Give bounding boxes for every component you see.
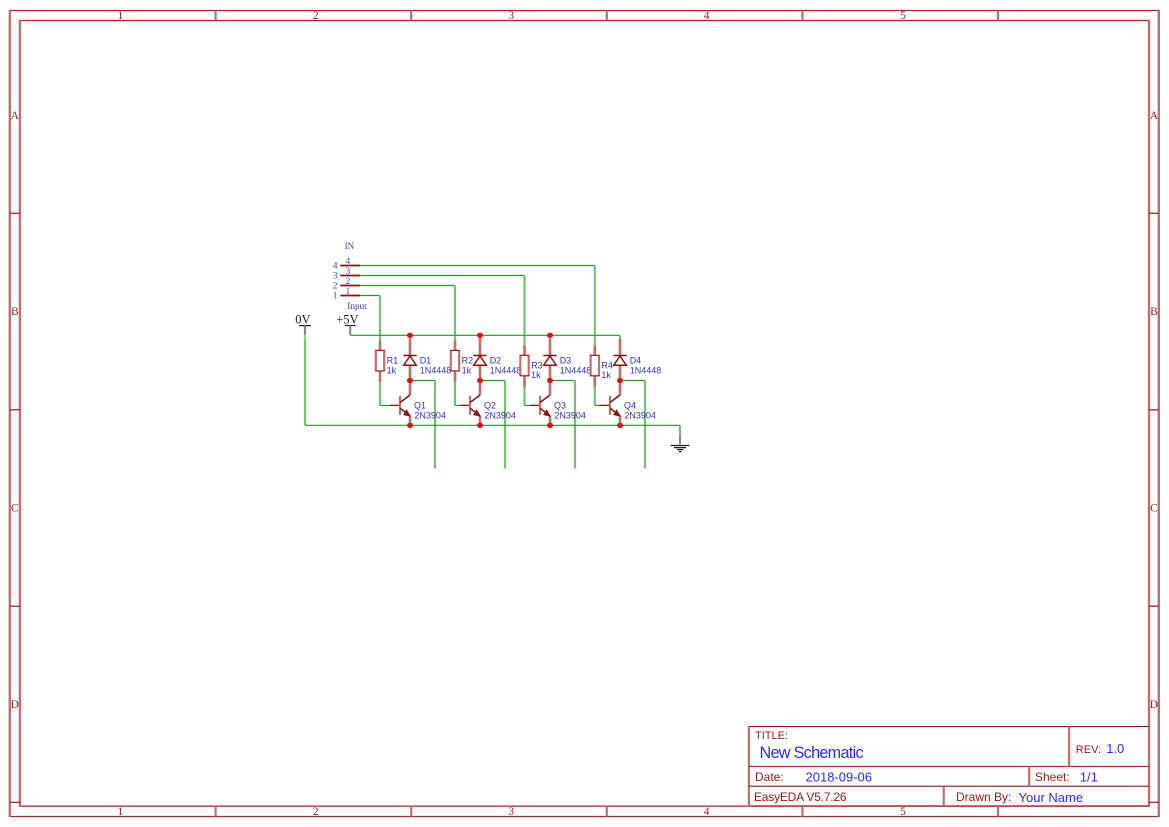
transistor Q3 [530,383,550,422]
wire stub D2 anode [479,381,481,384]
frame column tick bottom x=411.2 [410,806,412,816]
svg-text:EasyEDA V5.7.26: EasyEDA V5.7.26 [754,790,847,804]
frame row tick left y=606.2 [10,605,20,607]
wire 0V rail to ground [679,425,681,435]
svg-text:D1: D1 [420,356,432,366]
wire 0V rail [305,424,680,426]
junction dot D3 anode / Q3 collector [547,378,553,383]
frame column tick top x=998.0 [997,11,999,21]
title block row line 1 [749,765,1149,767]
wire D2 anode junction to output drop [480,381,505,469]
svg-text:1k: 1k [462,365,472,375]
svg-text:1: 1 [118,10,124,22]
frame column tick bottom x=215.6 [215,806,217,816]
svg-text:D4: D4 [630,356,642,366]
wire D4 anode junction to output drop [620,381,645,469]
wire IN pin 2 to R2 top [360,286,455,342]
junction dot D2 anode / Q2 collector [477,378,483,383]
svg-text:Q1: Q1 [414,401,426,411]
svg-text:3: 3 [346,267,351,277]
svg-text:4: 4 [704,10,710,22]
svg-text:A: A [11,110,20,122]
svg-text:1k: 1k [531,370,541,380]
wire IN pin 3 to R3 top [360,276,525,347]
junction dot Q4 emitter / 0V rail [617,423,623,428]
diode D4 [613,339,626,381]
resistor R1 [375,341,385,382]
svg-text:D: D [1150,699,1158,711]
svg-text:B: B [11,306,19,318]
junction dot Q2 emitter / 0V rail [477,423,483,428]
title block divider Drawn By [943,786,945,806]
title block outline [749,726,1149,806]
frame column tick bottom x=998.0 [997,806,999,816]
transistor Q1 [390,383,410,422]
svg-text:1N4448: 1N4448 [490,365,522,375]
junction dot D1 anode / Q1 collector [407,378,413,383]
wire IN pin 4 to R4 top [360,266,595,347]
wire stub D4 anode [619,381,621,384]
svg-text:TITLE:: TITLE: [755,730,788,742]
svg-text:C: C [11,503,19,515]
svg-text:A: A [1150,110,1159,122]
svg-text:REV:: REV: [1076,744,1101,756]
junction dot Q3 emitter / 0V rail [547,423,553,428]
diode D3 [543,339,556,381]
svg-text:1/1: 1/1 [1080,770,1098,785]
frame row tick left y=409.8 [10,409,20,411]
junction dot +5V rail / D2 [477,333,483,338]
frame column tick top x=606.8 [606,11,608,21]
svg-text:R1: R1 [387,356,399,366]
frame row tick right y=213.3 [1149,212,1159,214]
title block divider Sheet [1028,766,1030,786]
svg-text:5: 5 [900,806,906,818]
wire stub Q2 emitter [479,422,481,425]
frame row tick left y=802.3 [10,801,20,803]
connector pin 4 line [340,265,360,267]
wire R1 bottom to Q1 base [380,382,400,406]
svg-text:2N3904: 2N3904 [554,410,586,420]
svg-text:1: 1 [118,806,124,818]
frame row tick right y=409.8 [1149,409,1159,411]
svg-text:2: 2 [313,10,319,22]
frame column tick top x=215.6 [215,11,217,21]
frame column tick top x=802.4 [801,11,803,21]
title block divider REV [1068,727,1070,767]
svg-text:2N3904: 2N3904 [414,410,446,420]
svg-text:4: 4 [333,261,338,271]
wire stub Q1 emitter [409,422,411,425]
wire R2 bottom to Q2 base [455,382,470,406]
wire +5V rail stub to D4 [619,335,621,340]
transistor Q2 [460,383,480,422]
resistor R3 [520,346,530,387]
svg-text:3: 3 [333,271,338,281]
wire +5V rail stub to D1 [409,335,411,340]
svg-text:Drawn By:: Drawn By: [956,790,1011,804]
svg-text:3: 3 [508,806,514,818]
svg-text:+5V: +5V [336,313,358,327]
svg-text:4: 4 [346,257,351,267]
wire stub Q4 emitter [619,422,621,425]
frame column tick bottom x=606.8 [606,806,608,816]
svg-text:1N4448: 1N4448 [630,365,662,375]
wire +5V rail stub to D3 [549,335,551,340]
svg-text:1k: 1k [601,370,611,380]
power flag 0V [299,326,311,341]
svg-text:2018-09-06: 2018-09-06 [806,770,873,785]
svg-text:B: B [1150,306,1158,318]
wire stub Q3 emitter [549,422,551,425]
svg-text:Q2: Q2 [484,401,496,411]
frame row tick right y=606.2 [1149,605,1159,607]
svg-text:1N4448: 1N4448 [420,365,452,375]
junction dot +5V rail / D1 [407,333,413,338]
svg-text:2: 2 [346,277,351,287]
wire stub D1 anode [409,381,411,384]
svg-text:Input: Input [347,301,367,311]
svg-text:R3: R3 [531,360,543,370]
svg-text:0V: 0V [295,313,310,327]
resistor R2 [450,341,460,382]
power flag +5V [345,326,356,335]
diode D2 [473,339,486,381]
svg-text:R4: R4 [601,360,613,370]
svg-text:1: 1 [346,287,351,297]
wire 0V down left side [304,340,306,425]
frame column tick bottom x=802.4 [801,806,803,816]
svg-text:2: 2 [313,806,319,818]
svg-text:1.0: 1.0 [1106,741,1124,756]
junction dot +5V rail / D3 [547,333,553,338]
svg-text:Your Name: Your Name [1019,790,1084,805]
svg-text:2N3904: 2N3904 [624,410,656,420]
svg-text:Sheet:: Sheet: [1035,770,1070,784]
wire IN pin 1 to R1 top [360,296,380,342]
frame row tick left y=213.3 [10,212,20,214]
wire stub D3 anode [549,381,551,384]
svg-text:3: 3 [508,10,514,22]
svg-text:1: 1 [333,291,338,301]
frame row tick right y=802.3 [1149,801,1159,803]
connector pin 2 line [340,285,360,287]
svg-text:2: 2 [333,281,338,291]
svg-text:D2: D2 [490,356,502,366]
svg-text:R2: R2 [462,356,474,366]
svg-text:Q4: Q4 [624,401,636,411]
frame column tick top x=411.2 [410,11,412,21]
diode D1 [403,339,416,381]
wire +5V rail stub to D2 [479,335,481,340]
wire R3 bottom to Q3 base [525,386,541,405]
svg-text:New Schematic: New Schematic [760,744,864,762]
svg-text:C: C [1150,503,1158,515]
wire D1 anode junction to output drop [410,381,435,469]
svg-text:2N3904: 2N3904 [484,410,516,420]
title block row line 2 [749,785,1149,787]
wire R4 bottom to Q4 base [595,386,610,405]
resistor R4 [590,346,600,387]
wire +5V rail [350,334,620,336]
svg-text:D3: D3 [560,356,572,366]
svg-text:Q3: Q3 [554,401,566,411]
svg-text:4: 4 [704,806,710,818]
svg-text:D: D [11,699,19,711]
transistor Q4 [600,383,620,422]
junction dot D4 anode / Q4 collector [617,378,623,383]
svg-text:1N4448: 1N4448 [560,365,592,375]
wire D3 anode junction to output drop [550,381,575,469]
svg-text:Date:: Date: [755,770,784,784]
connector pin 3 line [340,275,360,277]
svg-text:1k: 1k [387,365,397,375]
svg-text:5: 5 [900,10,906,22]
connector pin 1 line [340,295,360,297]
junction dot Q1 emitter / 0V rail [407,423,413,428]
svg-text:IN: IN [345,241,355,251]
ground symbol [671,435,690,452]
